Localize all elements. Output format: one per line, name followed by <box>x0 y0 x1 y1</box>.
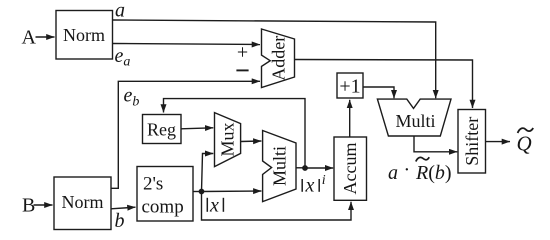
wire Accum output up to +1 <box>349 100 351 137</box>
svg-text:i: i <box>322 173 326 188</box>
svg-text:Norm: Norm <box>62 192 104 212</box>
svg-text:2's: 2's <box>143 174 163 195</box>
block +1 <box>337 73 363 98</box>
wire junction to small Multi lower input <box>202 190 262 193</box>
svg-text:Accum: Accum <box>340 143 360 195</box>
multiplier (small) <box>263 131 296 202</box>
wire junction down and right to Accum bottom input <box>202 192 352 221</box>
multiplier (big) for a x R(b) <box>377 99 451 136</box>
wire Adder output to Shifter top <box>295 60 473 109</box>
svg-text:x: x <box>305 174 315 196</box>
svg-text:comp: comp <box>142 197 184 218</box>
block 2's comp <box>137 167 193 222</box>
block Norm (bottom, for operand B) <box>54 177 111 230</box>
svg-text:+1: +1 <box>339 76 360 98</box>
junction node |x|^i <box>302 165 308 171</box>
svg-text:x: x <box>209 195 219 217</box>
block Norm (top, for operand A) <box>56 11 113 60</box>
svg-text:Shifter: Shifter <box>462 117 482 166</box>
svg-text:Adder: Adder <box>269 36 289 81</box>
svg-text:B: B <box>22 195 35 217</box>
block Accum <box>334 137 367 200</box>
svg-text:Multi: Multi <box>270 146 290 186</box>
junction node |x| <box>199 189 205 195</box>
svg-text:ea: ea <box>115 45 131 70</box>
svg-text:b: b <box>115 210 125 232</box>
svg-text:a: a <box>115 0 125 22</box>
svg-text:A: A <box>22 27 37 49</box>
label |x| <box>206 198 208 212</box>
wire big Multi output to Shifter left input <box>414 136 457 152</box>
wire small Multi output to junction <box>296 167 305 169</box>
adder U1 <box>262 29 295 88</box>
svg-text:Mux: Mux <box>218 122 238 156</box>
wire A to Norm <box>36 36 55 38</box>
wire B to Norm <box>34 204 53 206</box>
wire Shifter output to Q <box>486 141 511 143</box>
label |x|^i <box>301 179 303 192</box>
svg-text:+: + <box>237 42 248 64</box>
svg-text:R(b): R(b) <box>415 162 452 184</box>
wire 2's comp output to junction <box>193 191 202 193</box>
svg-text:Q: Q <box>517 132 532 156</box>
wire +1 output to big Multi left input <box>363 87 394 98</box>
svg-text:Norm: Norm <box>63 25 105 45</box>
wire feedback junction up to Reg input <box>164 99 306 168</box>
svg-text:eb: eb <box>124 85 140 110</box>
wire junction to Mux lower input <box>202 154 214 192</box>
wire e_a: Norm to Adder plus input <box>113 44 261 45</box>
svg-text:a: a <box>388 162 398 184</box>
wire Reg output to Mux upper input <box>181 128 213 129</box>
wire b: Norm to 2's comp <box>111 207 136 209</box>
block Reg <box>143 115 182 144</box>
mux <box>215 113 241 167</box>
svg-text:·: · <box>404 159 411 181</box>
wire Mux output to small Multi upper input <box>241 140 262 143</box>
svg-text:Reg: Reg <box>147 120 176 140</box>
wire junction to Accum left input <box>305 167 333 169</box>
wire e_b: Norm bottom to Adder minus input <box>111 81 260 188</box>
wire a: Norm to big Multi right input <box>113 20 436 98</box>
block Shifter <box>458 110 486 174</box>
minus sign at Adder input <box>236 69 248 71</box>
svg-text:Multi: Multi <box>395 111 435 131</box>
